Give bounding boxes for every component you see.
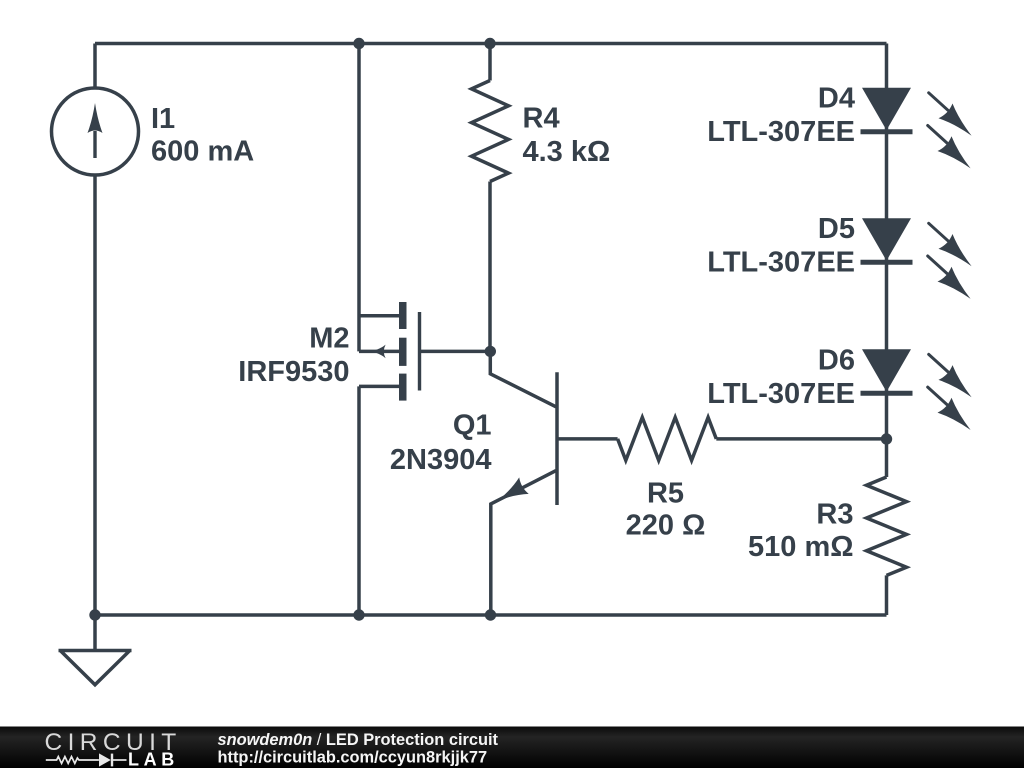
- svg-text:D6: D6: [818, 344, 855, 376]
- svg-text:600 mA: 600 mA: [151, 136, 254, 168]
- svg-text:D5: D5: [818, 213, 855, 245]
- svg-text:http://circuitlab.com/ccyun8rk: http://circuitlab.com/ccyun8rkjjk77: [218, 749, 488, 767]
- svg-text:snowdem0n / LED Protection cir: snowdem0n / LED Protection circuit: [218, 731, 499, 749]
- svg-text:I1: I1: [151, 103, 175, 135]
- svg-text:D4: D4: [818, 83, 855, 115]
- svg-text:IRF9530: IRF9530: [238, 356, 349, 388]
- svg-text:R5: R5: [647, 478, 684, 510]
- svg-text:M2: M2: [309, 323, 349, 355]
- svg-text:4.3 kΩ: 4.3 kΩ: [523, 136, 611, 168]
- svg-text:510 mΩ: 510 mΩ: [748, 531, 853, 563]
- svg-text:220 Ω: 220 Ω: [626, 510, 706, 542]
- svg-text:LAB: LAB: [128, 750, 179, 768]
- svg-text:R4: R4: [523, 103, 560, 135]
- svg-text:LTL-307EE: LTL-307EE: [707, 378, 855, 410]
- svg-text:Q1: Q1: [453, 410, 492, 442]
- svg-text:LTL-307EE: LTL-307EE: [707, 247, 855, 279]
- svg-text:R3: R3: [816, 499, 853, 531]
- svg-text:LTL-307EE: LTL-307EE: [707, 116, 855, 148]
- svg-text:2N3904: 2N3904: [390, 444, 492, 476]
